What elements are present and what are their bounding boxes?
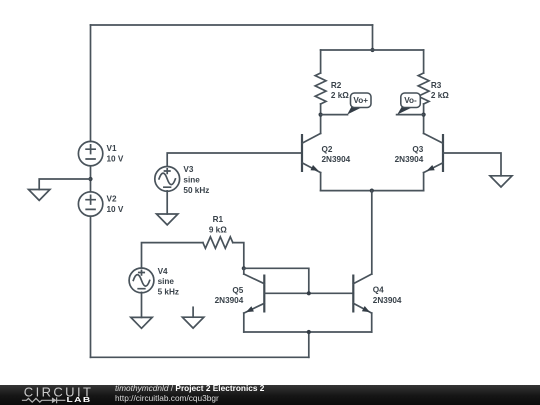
svg-text:V3: V3	[183, 165, 193, 174]
wire bottom rail	[91, 356, 309, 358]
svg-text:LAB: LAB	[67, 395, 92, 403]
resistor R2	[315, 50, 326, 133]
wire Q5 collector stub	[243, 268, 245, 274]
svg-text:10 V: 10 V	[107, 205, 124, 214]
wire ground stub left	[39, 179, 90, 190]
CircuitLab logo	[0, 385, 110, 405]
wire Q5 emitter drop	[243, 313, 245, 332]
wire V3 to ground	[166, 191, 168, 214]
label Q3 type	[395, 145, 424, 164]
svg-text:5 kHz: 5 kHz	[158, 288, 179, 297]
svg-text:Q3: Q3	[412, 145, 423, 154]
ground (V3)	[157, 214, 178, 225]
voltage source V3 (sine)	[155, 167, 180, 192]
node junction R3/Q3 collector	[422, 113, 426, 117]
wire top rail	[91, 24, 373, 26]
wire center drop from top rail	[372, 25, 374, 50]
resistor R1	[203, 237, 233, 248]
wire collector-base tie	[244, 268, 309, 293]
svg-text:R2: R2	[331, 81, 342, 90]
svg-text:2N3904: 2N3904	[373, 296, 402, 305]
footer text	[115, 384, 264, 404]
transistor Q2 2N3904	[302, 133, 321, 172]
svg-text:2 kΩ: 2 kΩ	[331, 91, 349, 100]
transistor Q4 2N3904	[353, 274, 371, 313]
svg-text:Q4: Q4	[373, 285, 384, 294]
svg-text:R1: R1	[213, 215, 224, 224]
svg-text:2N3904: 2N3904	[395, 155, 424, 164]
svg-text:Vo+: Vo+	[353, 96, 368, 105]
label R2 value	[331, 81, 349, 100]
svg-text:V2: V2	[107, 195, 117, 204]
svg-text:10 V: 10 V	[107, 155, 124, 164]
label Q5 type	[215, 286, 244, 305]
voltage source V2	[78, 192, 102, 216]
wire bottom rail riser	[308, 332, 310, 357]
node junction R1/Q5 collector/tie	[242, 266, 246, 270]
node junction R2/Q2 collector	[319, 113, 323, 117]
voltage source V4 (sine)	[129, 268, 154, 293]
node junction V1/V2/ground	[88, 177, 92, 181]
svg-text:9 kΩ: 9 kΩ	[209, 225, 227, 234]
node junction base rail / tie	[307, 291, 311, 295]
label Q4 type	[373, 285, 402, 305]
wire Q2 emitter drop	[320, 173, 322, 191]
wire R1 to Q5 collector junction	[233, 243, 244, 269]
transistor Q3 2N3904	[424, 133, 443, 172]
voltage source V1	[78, 141, 102, 165]
wire emitter rail Q2-Q3	[321, 190, 424, 192]
label Q2 type	[322, 145, 351, 164]
ground (Q3 base)	[490, 176, 512, 187]
svg-text:2N3904: 2N3904	[322, 155, 351, 164]
node junction top center	[370, 48, 374, 52]
label V3 value	[183, 165, 209, 195]
svg-text:V1: V1	[107, 144, 117, 153]
label R1 value	[209, 215, 227, 234]
wire emitter rail Q5-Q4	[244, 331, 372, 333]
footer bar	[0, 385, 540, 405]
flag Vo+	[347, 93, 371, 115]
wire Q4 emitter drop	[371, 313, 373, 332]
wire Q4 collector riser	[371, 191, 373, 274]
svg-text:50 kHz: 50 kHz	[183, 186, 209, 195]
svg-text:2N3904: 2N3904	[215, 296, 244, 305]
wire Q3 emitter drop	[423, 173, 425, 191]
transistor Q5 2N3904	[244, 274, 264, 313]
wire Q3 base to ground	[443, 153, 501, 176]
wire Vo+ stub	[321, 114, 348, 116]
label V1 value	[107, 144, 124, 163]
svg-text:V4: V4	[158, 267, 168, 276]
flag Vo-	[397, 93, 420, 115]
wire V2 bottom to bottom rail	[90, 216, 92, 357]
wire V1 to V2	[90, 166, 92, 192]
resistor R3	[418, 50, 429, 133]
ground (V4)	[131, 317, 152, 328]
wire V4 top to R1	[142, 243, 203, 268]
label V4 value	[158, 267, 179, 297]
wire Vo- stub	[397, 114, 424, 116]
svg-text:2 kΩ: 2 kΩ	[431, 91, 449, 100]
wire left rail (top of V1)	[90, 25, 92, 141]
svg-text:R3: R3	[431, 81, 442, 90]
wire V3 to base rail	[167, 153, 302, 166]
label R3 value	[431, 81, 449, 100]
svg-text:sine: sine	[183, 176, 200, 185]
svg-text:Q5: Q5	[232, 286, 243, 295]
svg-text:Vo-: Vo-	[404, 96, 417, 105]
ground (floating, center)	[182, 307, 203, 328]
ground (left)	[29, 190, 50, 201]
wire base rail Q5-Q4	[264, 292, 353, 294]
node junction emitter rail / Q4 collector	[370, 189, 374, 193]
wire R2-R3 supply rail	[321, 49, 424, 51]
wire V4 to ground	[141, 292, 143, 317]
node junction emitter rail / bottom riser	[307, 330, 311, 334]
label V2 value	[107, 195, 124, 214]
svg-text:sine: sine	[158, 277, 175, 286]
svg-text:Q2: Q2	[322, 145, 333, 154]
